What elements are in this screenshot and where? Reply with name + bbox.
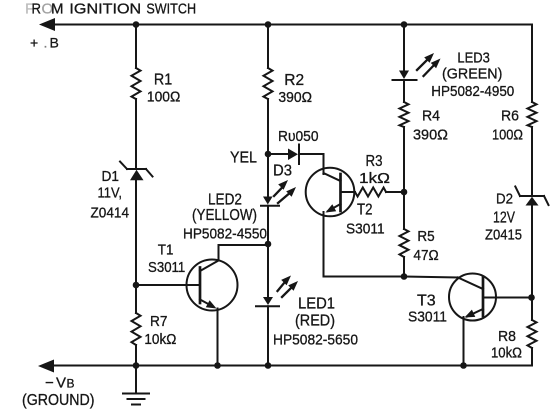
svg-text:(GROUND): (GROUND)	[22, 392, 95, 409]
svg-text:(GREEN): (GREEN)	[442, 66, 502, 83]
svg-text:R2: R2	[284, 72, 304, 89]
svg-text:D3: D3	[273, 163, 292, 180]
junction R3 right end	[401, 189, 408, 196]
junction T3 collector / right rail	[528, 294, 535, 301]
wire D3 cathode to T2 collector	[323, 154, 325, 174]
wire T1 collector up to LED2 junction	[219, 245, 269, 261]
wire R2 to YEL node	[267, 99, 269, 197]
svg-text:IGNITION: IGNITION	[69, 1, 141, 18]
resistor R2	[264, 68, 273, 99]
svg-text:D2: D2	[496, 192, 513, 208]
resistor R1	[132, 68, 141, 99]
node +VB supply arrow	[39, 18, 55, 31]
LED3 light arrows	[417, 53, 441, 76]
svg-text:+.B: +.B	[30, 35, 59, 51]
svg-text:HP5082-4550: HP5082-4550	[183, 226, 267, 243]
svg-text:100Ω: 100Ω	[147, 89, 180, 106]
wire T3 emitter down	[463, 317, 465, 366]
resistor R3	[355, 188, 386, 197]
junction T3 emitter / ground rail	[460, 362, 467, 369]
wire R4 to R5	[403, 127, 405, 229]
LED1 light arrows	[278, 276, 299, 298]
svg-text:11V,: 11V,	[98, 185, 123, 202]
wire LED3/R4 branch top	[403, 25, 405, 71]
wire right rail (R6 branch)	[531, 25, 533, 103]
wire T1 emitter down	[217, 309, 219, 366]
svg-text:47Ω: 47Ω	[413, 248, 438, 264]
svg-text:390Ω: 390Ω	[413, 127, 448, 144]
node YEL junction	[265, 151, 272, 158]
junction LED1 bottom / ground rail	[265, 362, 272, 369]
svg-text:S3011: S3011	[346, 221, 385, 238]
wire R8 to ground rail	[531, 348, 533, 366]
node -VB ground arrow	[38, 360, 54, 373]
resistor R7	[132, 313, 141, 345]
svg-text:R4: R4	[422, 108, 440, 125]
svg-text:(RED): (RED)	[295, 313, 335, 330]
wire T3 base lead	[404, 277, 458, 278]
wire top supply rail	[52, 24, 532, 26]
svg-text:R: R	[32, 1, 42, 18]
svg-text:Z0414: Z0414	[91, 205, 130, 222]
wire R6 to D2	[531, 127, 533, 196]
svg-text:HP5082-4950: HP5082-4950	[431, 83, 514, 100]
svg-text:390Ω: 390Ω	[278, 89, 312, 106]
svg-text:R5: R5	[417, 229, 434, 245]
svg-text:D1: D1	[102, 168, 120, 185]
wire LED3 to R4	[403, 80, 405, 102]
wire R3 to R4/R5 rail	[386, 191, 404, 193]
junction T1 collector / LED2 cathode	[265, 241, 272, 248]
zener diode D1	[120, 162, 153, 181]
svg-text:HP5082-5650: HP5082-5650	[273, 332, 358, 349]
junction R4 branch / top wire	[401, 21, 408, 28]
svg-text:R3: R3	[366, 153, 383, 170]
ground symbol	[123, 366, 149, 405]
svg-text:12V: 12V	[493, 210, 516, 227]
svg-text:−VB: −VB	[45, 375, 75, 392]
wire bottom ground rail	[52, 365, 532, 367]
svg-text:S3011: S3011	[148, 259, 185, 276]
resistor R6	[528, 102, 537, 127]
junction R5 bottom / T2 emitter / T3 base	[401, 273, 408, 280]
wire LED2 to junction	[267, 206, 269, 297]
junction T1 base on left rail	[133, 282, 140, 289]
svg-text:T3: T3	[417, 293, 436, 310]
svg-text:10kΩ: 10kΩ	[491, 346, 522, 362]
LED LED3 diode symbol	[393, 71, 417, 81]
wire T2 emitter down	[324, 212, 405, 277]
svg-text:M: M	[51, 1, 64, 18]
LED LED1 diode symbol	[256, 297, 279, 306]
wire left rail top (R1 branch)	[135, 25, 137, 69]
svg-text:T2: T2	[357, 202, 373, 219]
svg-text:YEL: YEL	[230, 150, 257, 167]
label FROM IGNITION SWITCH	[25, 1, 196, 18]
wire D2 to T3 collector junction	[531, 206, 533, 321]
svg-text:100Ω: 100Ω	[492, 127, 523, 144]
svg-text:1kΩ: 1kΩ	[359, 170, 390, 187]
svg-text:R6: R6	[501, 108, 519, 125]
svg-text:LED1: LED1	[298, 296, 335, 313]
svg-text:Z0415: Z0415	[485, 227, 522, 244]
svg-text:(YELLOW): (YELLOW)	[192, 207, 257, 224]
svg-text:S3011: S3011	[408, 309, 447, 326]
transistor T2	[306, 168, 355, 217]
resistor R5	[400, 229, 409, 257]
junction middle rail / top wire	[265, 21, 272, 28]
LED LED2 diode symbol	[261, 197, 279, 206]
wire R7 to ground rail	[135, 345, 137, 366]
svg-text:LED2: LED2	[208, 192, 242, 209]
resistor R4	[400, 102, 409, 127]
junction R7 / ground rail	[133, 362, 140, 369]
junction T1 emitter / ground rail	[214, 362, 221, 369]
transistor T1	[136, 260, 238, 311]
junction left rail / top wire	[133, 21, 140, 28]
svg-text:Rυ050: Rυ050	[278, 128, 319, 145]
resistor R8	[528, 320, 537, 348]
svg-text:T1: T1	[158, 242, 174, 259]
wire LED1 to ground rail	[267, 306, 269, 365]
LED2 light arrows	[274, 180, 296, 203]
wire R5 to T3 base junction	[403, 257, 405, 277]
svg-text:R7: R7	[150, 314, 168, 330]
wire D1 to T1 base junction	[135, 180, 137, 313]
transistor T3	[449, 274, 532, 321]
zener diode D2	[515, 187, 548, 206]
svg-text:10kΩ: 10kΩ	[144, 332, 176, 348]
wire middle rail top (R2 branch)	[267, 25, 269, 69]
svg-text:R1: R1	[154, 72, 172, 89]
wire R1 to D1	[135, 99, 137, 169]
diode D3	[268, 145, 324, 165]
svg-text:SWITCH: SWITCH	[146, 1, 196, 18]
svg-text:LED3: LED3	[457, 50, 490, 67]
svg-text:R8: R8	[498, 328, 516, 345]
